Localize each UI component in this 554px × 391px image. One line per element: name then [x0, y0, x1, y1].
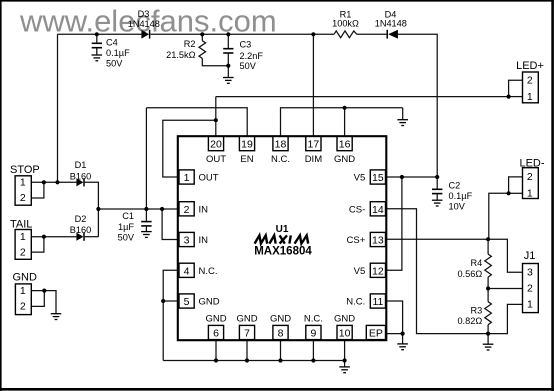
junction node rail pin8 [278, 358, 282, 362]
wire D1 out corner down [85, 182, 99, 236]
wire pin9 stub down [312, 340, 314, 361]
svg-text:GND: GND [199, 297, 220, 308]
svg-text:50V: 50V [118, 233, 135, 243]
wire LED- pin2 tie [509, 177, 523, 193]
pin 4 box [179, 263, 194, 277]
svg-text:CS-: CS- [349, 204, 365, 215]
wire C2 to ground [436, 193, 438, 200]
svg-text:GND: GND [270, 313, 291, 324]
wire STOP pins tie [31, 182, 44, 198]
pin 7 box [239, 325, 254, 339]
pin 2 box [179, 202, 194, 216]
svg-text:V5: V5 [354, 173, 366, 184]
junction node R4/R3 [486, 286, 490, 290]
svg-text:C1: C1 [122, 211, 134, 221]
junction node DIM/VIN [311, 32, 315, 36]
wire pin11 to EP net [386, 301, 403, 334]
svg-text:C3: C3 [240, 40, 252, 50]
junction node rail pin9 [311, 358, 315, 362]
svg-text:2: 2 [527, 75, 533, 87]
pin 13 box [370, 232, 385, 246]
svg-text:2: 2 [20, 192, 26, 204]
pin 16 box [337, 137, 352, 151]
wire VIN down to STOP row [57, 34, 59, 182]
svg-text:B160: B160 [70, 225, 91, 235]
svg-text:MAX16804: MAX16804 [254, 246, 312, 258]
svg-text:B160: B160 [70, 171, 91, 181]
junction node STOP tie [42, 180, 46, 184]
MAXIM logo [255, 235, 309, 243]
svg-text:14: 14 [372, 204, 384, 216]
pin 11 box [370, 294, 385, 308]
capacitor C4 [92, 43, 102, 55]
resistor R1 zigzag [334, 31, 357, 38]
ground under C3 R2 [223, 78, 234, 84]
wire pin16 stub up [344, 108, 346, 137]
diode D3 [141, 30, 149, 39]
svg-text:20: 20 [210, 139, 222, 151]
svg-text:9: 9 [310, 328, 316, 340]
wire pin4 pin5 gnd vertical [163, 270, 179, 360]
svg-text:3: 3 [184, 235, 190, 247]
wire V5 pin15 row [386, 176, 438, 178]
wire D4 to V5 vertical [398, 34, 437, 177]
wire C1 stub [145, 209, 147, 221]
svg-text:OUT: OUT [206, 154, 226, 165]
svg-text:R2: R2 [184, 39, 196, 49]
label D1 value [70, 160, 91, 181]
wire CS+ pin13 row [386, 238, 489, 240]
junction node rail pin7 [245, 358, 249, 362]
svg-text:D1: D1 [75, 160, 87, 170]
ground GND connector [51, 314, 62, 320]
wire C1 to ground [145, 226, 147, 232]
svg-text:6: 6 [213, 328, 219, 340]
wire C2 stub [436, 177, 438, 189]
diode D1 [76, 178, 84, 186]
pin 12 box [370, 263, 385, 277]
wire R2 bottom to C3 bottom [202, 58, 228, 65]
junction node C1/EN [144, 207, 148, 211]
junction node C3/VIN [226, 32, 230, 36]
wire R3 bottom to J1 pin1 [488, 304, 522, 333]
pin 17 box [306, 137, 321, 151]
junction node V5 pin12 branch [400, 175, 404, 179]
svg-text:V5: V5 [354, 266, 366, 277]
svg-text:1: 1 [184, 172, 190, 184]
ground EP [397, 344, 408, 350]
svg-text:8: 8 [278, 328, 284, 340]
pin 6 box [208, 325, 223, 339]
svg-text:19: 19 [241, 139, 253, 151]
pin 3 box [179, 232, 194, 246]
svg-text:1: 1 [527, 91, 533, 103]
wire gnd stub G3 [402, 108, 404, 120]
pin 9 box [306, 325, 321, 339]
connector STOP [10, 164, 40, 205]
wire bottom gnd rail [163, 360, 344, 362]
svg-text:0.1µF: 0.1µF [449, 191, 473, 201]
wire C3 stub top [227, 34, 229, 48]
svg-text:N.C.: N.C. [199, 266, 218, 277]
ground under C4 [92, 55, 103, 61]
svg-text:1N4148: 1N4148 [375, 18, 407, 28]
label C4 value [106, 38, 130, 69]
junction node pin5 [161, 299, 165, 303]
svg-text:2: 2 [527, 171, 533, 183]
diode D2 [76, 233, 84, 241]
junction node LED- tie [507, 191, 511, 195]
svg-text:11: 11 [372, 296, 383, 308]
wire LED- down to CS+ node [489, 193, 509, 239]
label D2 value [70, 214, 91, 235]
label R4 value [457, 258, 482, 279]
wire STOP to D1 [44, 181, 77, 183]
pin 15 box [370, 170, 385, 184]
svg-text:10V: 10V [449, 202, 466, 212]
wire OUT branch to pin1 [163, 120, 216, 177]
svg-text:12: 12 [372, 265, 384, 277]
junction node R3 bottom [486, 332, 490, 336]
svg-text:N.C.: N.C. [271, 154, 290, 165]
wire R3 ground stub G9 [487, 334, 489, 345]
svg-text:1: 1 [527, 299, 533, 311]
wire R4 stub top [487, 239, 489, 254]
svg-text:C4: C4 [106, 38, 118, 48]
svg-text:1: 1 [20, 231, 26, 243]
resistor R3 zigzag [485, 302, 492, 325]
svg-text:1N4148: 1N4148 [128, 19, 160, 29]
junction node C4/VIN [42, 32, 511, 362]
wire LED+ pin2 tie [509, 80, 523, 96]
wire GND conn pins tie [31, 291, 44, 307]
wire VIN top rail [58, 33, 142, 35]
wire EN horizontal to pin19 [146, 108, 247, 137]
wire CS- pin14 routing [386, 209, 489, 334]
svg-text:16: 16 [339, 139, 351, 151]
label C1 value [118, 211, 135, 243]
pin 19 box [239, 137, 254, 151]
svg-text:OUT: OUT [199, 173, 219, 184]
junction node C3 bottom [226, 64, 230, 68]
svg-text:18: 18 [275, 139, 287, 151]
svg-text:1: 1 [527, 188, 533, 200]
junction node pin1/pin20 [214, 118, 218, 122]
junction node R2/VIN [200, 32, 204, 36]
wire pin6 stub down [215, 340, 217, 361]
svg-text:17: 17 [308, 139, 320, 151]
svg-text:0.1µF: 0.1µF [106, 48, 130, 58]
ground pin16 pin18 net [397, 120, 408, 126]
pin EP box [366, 325, 385, 339]
wire TAIL to D2 [44, 236, 77, 238]
svg-text:LED+: LED+ [516, 60, 544, 72]
junction node pin3 branch [160, 207, 164, 211]
svg-text:2: 2 [20, 246, 26, 258]
svg-text:50V: 50V [106, 59, 123, 69]
svg-text:N.C.: N.C. [304, 313, 323, 324]
connector LED- [519, 158, 544, 200]
svg-text:3: 3 [527, 267, 533, 279]
wire R4 bottom [487, 277, 489, 288]
label C2 value [449, 181, 473, 212]
junction node LED+ tie [507, 95, 511, 99]
svg-text:2.2nF: 2.2nF [240, 51, 264, 61]
wire R3 stub top [487, 289, 489, 302]
svg-text:J1: J1 [524, 250, 536, 262]
connector GND [13, 272, 38, 315]
wire rail ground stub G8 [344, 361, 346, 367]
junction node GND conn tie [42, 289, 46, 293]
svg-text:STOP: STOP [10, 164, 40, 176]
svg-text:2: 2 [527, 283, 533, 295]
wire CS+ to J1 pin3 [488, 239, 522, 272]
wire R4 R3 node to J1 pin2 [488, 288, 522, 290]
op-amp U1 MAX16804 outline [178, 136, 386, 340]
wire C3 bottom to ground [227, 54, 229, 78]
connector LED+ [516, 60, 544, 103]
wire R1 to D4 [357, 33, 387, 35]
svg-text:2: 2 [184, 204, 190, 216]
junction node TAIL tie [42, 235, 46, 239]
pin 10 box [337, 325, 352, 339]
wire OUT horizontal to LED+ [216, 96, 509, 98]
wire pin18 to gnd horizontal [281, 108, 403, 137]
junction node CS+ [486, 237, 490, 241]
svg-text:D3: D3 [138, 9, 150, 19]
svg-text:15: 15 [372, 172, 384, 184]
svg-text:N.C.: N.C. [346, 297, 365, 308]
svg-text:13: 13 [372, 235, 384, 247]
svg-text:IN: IN [199, 235, 209, 246]
svg-text:21.5kΩ: 21.5kΩ [166, 50, 195, 60]
svg-text:U1: U1 [276, 224, 289, 235]
svg-text:IN: IN [199, 204, 209, 215]
svg-text:10: 10 [339, 328, 351, 340]
wire pin7 stub down [246, 340, 248, 361]
pin 20 box [208, 137, 223, 151]
ground under C1 [141, 232, 152, 238]
wire pin8 stub down [280, 340, 282, 361]
capacitor C3 [223, 49, 233, 53]
wire GND conn to ground [44, 291, 56, 314]
capacitor C2 [432, 189, 442, 193]
svg-text:50V: 50V [240, 61, 257, 71]
svg-text:1µF: 1µF [118, 222, 134, 232]
wire pin3 branch [162, 209, 179, 240]
wire R2 stub top [201, 34, 203, 40]
junction node rail pin6 [214, 358, 218, 362]
wire DIM vertical pin17 [312, 34, 314, 136]
label R2 value [166, 39, 195, 60]
svg-text:GND: GND [13, 272, 38, 284]
pin 1 box [179, 170, 194, 184]
wire C4 stub [96, 34, 98, 43]
svg-text:100kΩ: 100kΩ [332, 18, 359, 28]
label D3 value [128, 9, 160, 29]
svg-text:C2: C2 [449, 181, 461, 191]
junction node VIN/STOP [55, 180, 59, 184]
svg-text:GND: GND [334, 154, 355, 165]
svg-text:4: 4 [184, 265, 190, 277]
wire TAIL pins tie [31, 237, 44, 252]
label D4 value [375, 10, 407, 29]
svg-text:DIM: DIM [305, 154, 323, 165]
wire EP ground stub G7 [402, 334, 404, 344]
junction node EP/pin11 [401, 332, 405, 336]
pin 5 box [179, 294, 194, 308]
wire D2 out to corner [85, 236, 99, 238]
svg-text:CS+: CS+ [347, 235, 366, 246]
svg-text:R4: R4 [470, 258, 482, 268]
svg-text:R3: R3 [470, 305, 482, 315]
svg-text:GND: GND [236, 313, 257, 324]
ground under R3 [483, 344, 494, 350]
ground under C2 [432, 200, 443, 206]
label R1 value [332, 10, 359, 29]
wire R3 bottom stub [487, 325, 489, 334]
diode D4 [387, 30, 398, 39]
wire pin5 stub [163, 300, 179, 302]
svg-text:D2: D2 [75, 214, 87, 224]
svg-text:TAIL: TAIL [10, 218, 32, 230]
wire V5 down to pin12 [386, 177, 402, 270]
svg-text:7: 7 [244, 328, 250, 340]
wire IN row to pin2 [98, 208, 179, 210]
junction node pin16 gnd [343, 106, 347, 110]
pin 18 box [273, 137, 288, 151]
resistor R4 zigzag [485, 254, 492, 277]
wire VIN D3 cathode to R1 [151, 33, 334, 35]
wire OUT pin20 vertical [215, 97, 217, 137]
svg-text:GND: GND [334, 313, 355, 324]
resistor R2 zigzag [199, 41, 206, 59]
svg-text:GND: GND [205, 313, 226, 324]
svg-text:EP: EP [369, 328, 383, 340]
label R3 value [457, 305, 482, 326]
junction node rail pin10 [343, 358, 347, 362]
wire LED+ pin1 stub [509, 96, 523, 98]
svg-text:5: 5 [184, 296, 190, 308]
svg-text:2: 2 [20, 301, 26, 313]
svg-text:1: 1 [20, 177, 26, 189]
junction node V5/C2 [435, 175, 439, 179]
connector J1 [523, 250, 539, 313]
svg-text:0.56Ω: 0.56Ω [457, 269, 482, 279]
wire LED- pin1 stub [509, 192, 523, 194]
svg-text:1: 1 [20, 285, 26, 297]
label C3 value [240, 40, 264, 72]
capacitor C1 [141, 222, 151, 226]
connector TAIL [10, 218, 32, 259]
svg-text:EN: EN [240, 154, 253, 165]
svg-text:0.82Ω: 0.82Ω [457, 316, 482, 326]
junction node D1/D2 [96, 207, 100, 211]
wire EN net vertical [145, 108, 147, 209]
pin 14 box [370, 202, 385, 216]
wire EP stub [386, 333, 403, 335]
pin 8 box [273, 325, 288, 339]
wire pin10 stub down [344, 340, 346, 361]
ground bottom rail [339, 367, 350, 373]
